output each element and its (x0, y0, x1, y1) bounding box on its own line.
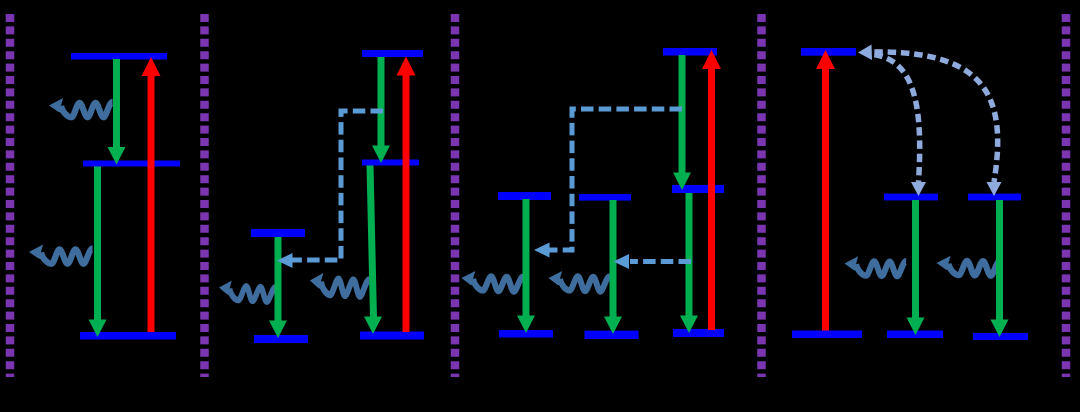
panel2 green decay lower (364, 166, 382, 335)
panel3 green decay left (517, 199, 535, 333)
panel4 middle level a (884, 194, 938, 201)
separator dashed line 4 (757, 14, 766, 377)
panel2 upper level (362, 50, 423, 57)
panel4 green decay right (991, 200, 1009, 337)
panel2 left ground level (254, 335, 308, 343)
panel1 wavy emission lower (29, 245, 93, 264)
panel3 wavy emission left (461, 271, 523, 292)
panel4 curved dashed decay a (871, 54, 926, 196)
panel4 left ground level (792, 331, 862, 339)
separator dashed line 5 (1062, 14, 1071, 377)
panel1 green decay upper (108, 59, 126, 165)
panel4 middle ground level (887, 331, 943, 339)
panel3 left intermediate level (498, 192, 551, 200)
panel3 dashed transfer arrow long (534, 109, 682, 258)
panel1 green decay lower (89, 167, 107, 338)
panel1 wavy emission upper (49, 98, 113, 117)
panel3 green decay upper (673, 55, 691, 190)
panel4 upper level (801, 48, 856, 56)
panel4 wavy emission right (936, 256, 1000, 276)
panel3 upper level (663, 48, 717, 56)
panel3 green decay right lower (680, 193, 698, 333)
panel3 red pump arrow (702, 50, 721, 330)
panel2 red pump arrow (397, 57, 416, 333)
panel4 green decay left (907, 200, 925, 335)
separator dashed line 3 (451, 14, 460, 377)
panel2 right ground level (360, 332, 424, 340)
panel2 wavy emission left (218, 280, 275, 302)
panel3 middle ground level (585, 331, 639, 339)
panel2 green decay metastable (269, 237, 287, 338)
panel3 wavy emission middle (548, 271, 610, 292)
panel3 right intermediate level (672, 185, 724, 193)
panel3 dashed transfer arrow short (614, 254, 692, 269)
panel2 dashed transfer arrow (277, 111, 383, 268)
panel4 wavy emission left (844, 256, 906, 276)
panel4 middle level b (968, 194, 1021, 201)
panel1 red pump arrow (142, 57, 161, 332)
panel2 wavy emission right (309, 272, 369, 297)
panel4 red pump arrow (816, 50, 835, 331)
panel4 curved branch arrowtail (858, 45, 872, 61)
panel4 curved dashed decay b (871, 52, 1002, 196)
panel1 middle level (83, 161, 180, 167)
panel3 green decay middle (604, 200, 622, 334)
panel2 middle level (362, 160, 419, 166)
separator dashed line 2 (200, 14, 209, 377)
panel3 left ground level (499, 330, 553, 338)
panel2 metastable level (251, 229, 305, 237)
panel3 right ground level (673, 329, 724, 337)
panel3 middle intermediate level (579, 194, 631, 201)
panel4 right ground level (973, 333, 1028, 340)
panel1 upper level (71, 53, 167, 60)
separator dashed line 1 (6, 14, 15, 377)
panel2 green decay upper (372, 57, 390, 163)
panel1 ground level (80, 332, 176, 340)
